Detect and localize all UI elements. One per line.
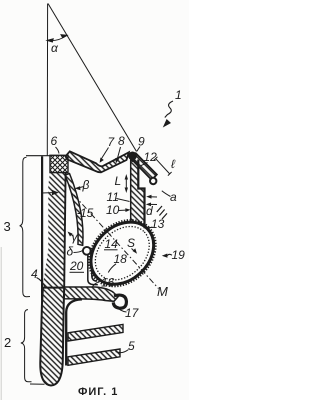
- peak knob: [128, 152, 137, 161]
- svg-text:4: 4: [31, 267, 38, 281]
- dimension l along band B: [156, 159, 170, 174]
- bracket 2: [21, 310, 32, 382]
- svg-text:d: d: [146, 204, 153, 218]
- svg-text:9: 9: [138, 135, 145, 149]
- small solid arrow at wall: [42, 192, 53, 194]
- svg-text:6: 6: [51, 134, 58, 148]
- channel bottom bridge: [64, 287, 118, 301]
- lip end knob: [83, 247, 91, 255]
- svg-text:α: α: [51, 41, 59, 55]
- flange fold boundary: [66, 299, 82, 365]
- top edge line: [26, 155, 50, 157]
- top gasket band A: [66, 151, 129, 172]
- flange strip lower: [68, 349, 120, 365]
- band B tip hook: [150, 178, 156, 184]
- leader 6: [56, 147, 60, 154]
- svg-text:20: 20: [69, 259, 84, 273]
- left wall upper hatched body: [43, 173, 65, 288]
- central post: [131, 160, 145, 237]
- svg-text:a: a: [170, 190, 177, 204]
- svg-text:ФИГ. 1: ФИГ. 1: [78, 386, 118, 398]
- wall inner right edge: [64, 173, 65, 288]
- hatch stub right of band B: [157, 206, 167, 219]
- leader 12: [141, 163, 148, 166]
- svg-text:12: 12: [144, 150, 158, 164]
- svg-text:β: β: [82, 178, 90, 192]
- outer metal edge line: [41, 156, 43, 300]
- bracket 3: [20, 157, 30, 296]
- tube seal ellipse: [76, 207, 169, 299]
- vertical reference line: [46, 4, 48, 156]
- angle alpha arc with arrowheads: [47, 35, 67, 42]
- band B descending right: [131, 153, 157, 180]
- curl 17: [113, 295, 126, 308]
- seal lip 15: [65, 174, 83, 246]
- base line tick at cap: [30, 383, 45, 385]
- leader 10 with arrow: [119, 209, 129, 212]
- svg-text:M: M: [157, 284, 168, 299]
- svg-text:δ: δ: [67, 245, 74, 259]
- svg-text:10: 10: [106, 203, 120, 217]
- leader 7: [100, 148, 108, 161]
- leader 8: [117, 147, 121, 161]
- leader squiggle arrow for 1: [165, 101, 173, 118]
- svg-text:5: 5: [128, 339, 135, 353]
- svg-text:17: 17: [125, 306, 140, 320]
- svg-text:8: 8: [118, 134, 125, 148]
- svg-text:S: S: [127, 236, 135, 250]
- svg-text:19: 19: [172, 248, 186, 262]
- svg-text:11: 11: [107, 190, 119, 204]
- faint scan edge: [0, 247, 2, 400]
- svg-text:16: 16: [101, 276, 115, 290]
- leader 9: [137, 147, 140, 152]
- rib below knob: [88, 255, 98, 285]
- svg-text:1: 1: [175, 88, 182, 102]
- svg-text:3: 3: [4, 219, 11, 234]
- svg-text:13: 13: [151, 217, 165, 231]
- dash-dot center line: [74, 195, 159, 289]
- left wall lower hatched body: [40, 288, 64, 386]
- svg-text:γ: γ: [72, 230, 79, 244]
- svg-text:14: 14: [105, 237, 119, 251]
- svg-text:2: 2: [4, 335, 11, 350]
- armature block crosshatched: [50, 155, 68, 172]
- flange strip upper: [68, 324, 123, 341]
- leader 11: [117, 199, 130, 202]
- inclined reference line: [48, 4, 137, 152]
- svg-text:15: 15: [80, 206, 94, 220]
- leader 13: [144, 227, 153, 228]
- svg-text:L: L: [115, 174, 122, 188]
